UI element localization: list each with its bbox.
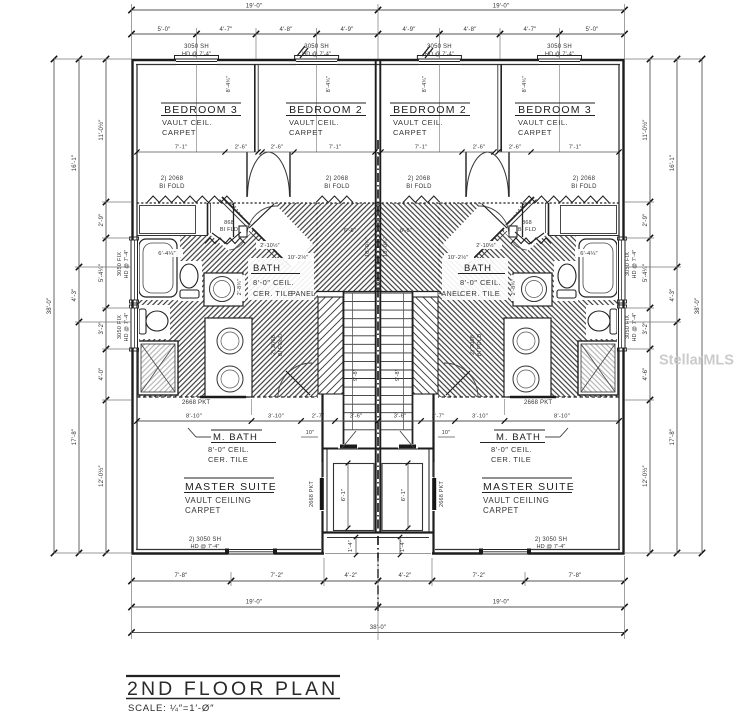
- corner closet (angled bifold): [208, 203, 252, 252]
- svg-text:6′-4¼″: 6′-4¼″: [580, 251, 598, 257]
- svg-text:11′-0½″: 11′-0½″: [642, 119, 649, 141]
- party wall: [375, 59, 377, 532]
- svg-text:6′-6″: 6′-6″: [400, 228, 412, 234]
- svg-text:3′-6″: 3′-6″: [350, 414, 363, 420]
- svg-text:BATH: BATH: [253, 263, 281, 274]
- svg-text:M. BATH: M. BATH: [496, 432, 541, 443]
- stair treads left unit: [344, 293, 376, 430]
- svg-text:HD @ 7′-4″: HD @ 7′-4″: [124, 313, 130, 342]
- left extension lines: [54, 58, 131, 60]
- svg-text:2′-10½″: 2′-10½″: [260, 242, 280, 249]
- svg-text:2ND FLOOR PLAN: 2ND FLOOR PLAN: [127, 678, 338, 700]
- svg-text:7′-1″: 7′-1″: [415, 145, 428, 151]
- svg-text:3050 SH: 3050 SH: [547, 44, 572, 50]
- svg-text:16′-1″: 16′-1″: [72, 154, 78, 171]
- closet 6ft1 dims: [347, 463, 349, 528]
- hall white area: [233, 203, 313, 267]
- svg-text:10′-2½″: 10′-2½″: [448, 254, 469, 261]
- svg-text:8′-4¾″: 8′-4¾″: [226, 76, 232, 93]
- vanity with sink (hall bath): [204, 273, 243, 306]
- svg-text:8′-0″ CEIL.: 8′-0″ CEIL.: [491, 445, 532, 454]
- window 3050 FIX left wall: [129, 308, 139, 348]
- top dimension row segments: [132, 33, 625, 35]
- svg-text:2) 2068: 2) 2068: [271, 335, 277, 355]
- svg-text:2′-9″: 2′-9″: [99, 213, 105, 227]
- svg-text:8′-0″ CEIL.: 8′-0″ CEIL.: [460, 278, 501, 287]
- svg-text:5′-0″: 5′-0″: [158, 27, 172, 33]
- svg-text:2′-10½″: 2′-10½″: [476, 242, 496, 249]
- svg-text:3050 FIX: 3050 FIX: [117, 315, 123, 339]
- svg-text:HD @ 7′-4″: HD @ 7′-4″: [425, 52, 454, 58]
- svg-text:2′-9″: 2′-9″: [643, 213, 649, 227]
- svg-text:7′-1″: 7′-1″: [175, 145, 188, 151]
- bedroom dim rows: [137, 151, 258, 153]
- svg-text:BI FOLD: BI FOLD: [477, 334, 483, 357]
- svg-text:5′-0″: 5′-0″: [586, 27, 600, 33]
- svg-text:3050 FIX: 3050 FIX: [117, 252, 123, 276]
- svg-text:7′-2″: 7′-2″: [473, 573, 487, 579]
- BEDROOM 2 label (right): [390, 102, 470, 104]
- svg-text:2′-7″: 2′-7″: [312, 414, 325, 420]
- svg-text:2668 PKT: 2668 PKT: [439, 481, 445, 508]
- svg-text:HD @ 7′-4″: HD @ 7′-4″: [545, 52, 574, 58]
- svg-text:6′-4¼″: 6′-4¼″: [158, 251, 176, 257]
- svg-text:HD @ 7′-4″: HD @ 7′-4″: [632, 250, 638, 279]
- diagonal closet wall: [222, 197, 250, 225]
- svg-text:3050 SH: 3050 SH: [184, 44, 209, 50]
- svg-text:CER. TILE: CER. TILE: [460, 289, 500, 298]
- svg-text:BEDROOM 3: BEDROOM 3: [164, 104, 238, 116]
- svg-text:4′-2″: 4′-2″: [399, 573, 413, 579]
- svg-text:12′-0½″: 12′-0½″: [98, 464, 105, 486]
- svg-text:10′-0¾″: 10′-0¾″: [365, 237, 371, 257]
- svg-text:4′-7″: 4′-7″: [524, 27, 538, 33]
- bath door swing: [247, 206, 277, 236]
- break marks on top row: [297, 46, 305, 56]
- svg-text:4′-8″: 4′-8″: [464, 27, 478, 33]
- right dimension chain inner: [649, 59, 651, 553]
- svg-text:VAULT CEIL.: VAULT CEIL.: [393, 118, 443, 127]
- svg-text:4′-9″: 4′-9″: [341, 27, 355, 33]
- svg-text:4′-9″: 4′-9″: [403, 27, 417, 33]
- top extension lines: [131, 4, 133, 59]
- svg-text:2′-6″: 2′-6″: [271, 145, 284, 151]
- svg-text:2′-6″: 2′-6″: [473, 145, 486, 151]
- svg-text:HD @ 7′-4″: HD @ 7′-4″: [182, 52, 211, 58]
- svg-text:19′-0″: 19′-0″: [493, 4, 510, 10]
- svg-text:3′-10″: 3′-10″: [472, 414, 488, 420]
- svg-text:7′-2″: 7′-2″: [271, 573, 285, 579]
- svg-text:4′-7″: 4′-7″: [220, 27, 234, 33]
- M. BATH label right: [494, 429, 545, 431]
- M. BATH leader left: [196, 436, 211, 438]
- svg-text:2) 2068: 2) 2068: [573, 176, 596, 182]
- svg-text:4′-0″: 4′-0″: [99, 367, 105, 381]
- svg-text:19′-0″: 19′-0″: [493, 600, 510, 606]
- svg-text:4′-3″: 4′-3″: [670, 288, 676, 302]
- svg-text:8′-10″: 8′-10″: [186, 414, 202, 420]
- hatched bath floor (ceramic tile) left unit: [137, 203, 318, 397]
- svg-text:HD @ 7′-4″: HD @ 7′-4″: [191, 544, 220, 550]
- svg-text:BI FOLD: BI FOLD: [278, 334, 284, 357]
- svg-text:VAULT CEIL.: VAULT CEIL.: [518, 118, 568, 127]
- svg-text:10″: 10″: [442, 430, 451, 436]
- hatched hall area above stairs: [316, 203, 378, 291]
- bottom exterior wall (master suite): [132, 552, 325, 554]
- top exterior wall: [132, 59, 379, 61]
- svg-text:19′-0″: 19′-0″: [246, 4, 263, 10]
- svg-text:CARPET: CARPET: [518, 128, 552, 137]
- svg-text:4′-8″: 4′-8″: [280, 27, 294, 33]
- svg-text:VAULT CEIL.: VAULT CEIL.: [162, 118, 212, 127]
- BATH label left: [248, 258, 314, 300]
- svg-text:2668 PKT: 2668 PKT: [182, 400, 210, 406]
- svg-text:38′-0″: 38′-0″: [695, 297, 701, 314]
- window 3050 FIX left wall: [129, 240, 139, 300]
- tiled shower with X: [138, 341, 178, 395]
- svg-text:7′-1″: 7′-1″: [329, 145, 342, 151]
- svg-text:8′-0″ CEIL.: 8′-0″ CEIL.: [253, 278, 294, 287]
- svg-text:4′-6″: 4′-6″: [643, 367, 649, 381]
- svg-text:BEDROOM 2: BEDROOM 2: [289, 104, 363, 116]
- svg-text:HD @ 7′-4″: HD @ 7′-4″: [124, 250, 130, 279]
- svg-text:2′-8¾″: 2′-8¾″: [511, 279, 517, 296]
- landing wall at stair bottom: [323, 448, 379, 450]
- svg-text:2′-8¾″: 2′-8¾″: [237, 279, 243, 296]
- right extension lines: [625, 58, 702, 60]
- svg-text:CARPET: CARPET: [162, 128, 196, 137]
- svg-text:3050 SH: 3050 SH: [304, 44, 329, 50]
- svg-text:10′-0¾″: 10′-0¾″: [383, 237, 389, 257]
- svg-text:2668 PKT: 2668 PKT: [309, 481, 315, 508]
- svg-text:PANEL: PANEL: [437, 291, 461, 298]
- svg-text:VAULT CEIL.: VAULT CEIL.: [289, 118, 339, 127]
- svg-text:HD @ 7′-4″: HD @ 7′-4″: [632, 313, 638, 342]
- svg-text:7′-8″: 7′-8″: [569, 573, 583, 579]
- svg-text:10″: 10″: [306, 430, 315, 436]
- svg-text:11′-0½″: 11′-0½″: [98, 119, 105, 141]
- svg-text:2′-7″: 2′-7″: [432, 414, 445, 420]
- left dimension chain mid: [78, 59, 80, 553]
- tile/carpet boundary (dashed): [137, 396, 318, 398]
- M. BATH label left: [211, 429, 262, 431]
- left exterior wall: [131, 59, 133, 555]
- svg-text:MASTER SUITE: MASTER SUITE: [185, 481, 277, 493]
- right dimension chain 38ft: [701, 59, 703, 553]
- bottom dimension row segments: [132, 580, 625, 582]
- svg-text:9′-8″: 9′-8″: [353, 369, 359, 381]
- svg-text:17′-8″: 17′-8″: [72, 428, 78, 445]
- svg-text:2′-6″: 2′-6″: [509, 145, 522, 151]
- svg-text:CARPET: CARPET: [185, 506, 221, 515]
- svg-text:12′-0½″: 12′-0½″: [642, 464, 649, 486]
- bottom dimension row 19ft: [132, 606, 625, 608]
- bathtub: [136, 236, 180, 300]
- svg-text:CER. TILE: CER. TILE: [491, 455, 531, 464]
- master vanity double sink: [205, 318, 252, 397]
- window 3050 SH top wall: [176, 56, 217, 66]
- svg-text:VAULT CEILING: VAULT CEILING: [185, 496, 251, 505]
- svg-text:2) 3050 SH: 2) 3050 SH: [189, 537, 221, 543]
- svg-text:6′-1″: 6′-1″: [341, 489, 347, 502]
- svg-text:2) 2068: 2) 2068: [326, 176, 349, 182]
- svg-text:3′-2″: 3′-2″: [643, 321, 649, 335]
- window 2/3050 SH bottom wall: [228, 547, 274, 556]
- left dimension chain inner: [105, 59, 107, 553]
- svg-text:1′-4″: 1′-4″: [400, 540, 406, 552]
- svg-text:BEDROOM 3: BEDROOM 3: [518, 104, 592, 116]
- BEDROOM 3 label (right): [515, 102, 595, 104]
- svg-text:StellarMLS: StellarMLS: [659, 353, 734, 369]
- bifold door center closet: [316, 196, 353, 203]
- corner bifold leaves: [212, 232, 241, 244]
- svg-text:17′-8″: 17′-8″: [670, 428, 676, 445]
- recessed entry wall at bottom center: [321, 532, 323, 555]
- svg-text:PANEL: PANEL: [291, 291, 315, 298]
- stair stringers: [352, 293, 354, 430]
- svg-text:16′-1″: 16′-1″: [670, 154, 676, 171]
- svg-text:2668 PKT: 2668 PKT: [524, 400, 552, 406]
- window 3050 SH top wall: [296, 56, 337, 66]
- svg-text:2′-6″: 2′-6″: [235, 145, 248, 151]
- closet front wall (dotted): [137, 202, 378, 204]
- svg-text:1′-4″: 1′-4″: [348, 540, 354, 552]
- svg-text:CER. TILE: CER. TILE: [253, 289, 293, 298]
- svg-text:6′-6″: 6′-6″: [344, 228, 356, 234]
- svg-text:VAULT CEILING: VAULT CEILING: [483, 496, 549, 505]
- svg-text:CARPET: CARPET: [483, 506, 519, 515]
- svg-text:SCALE: ¼″=1′-Ø″: SCALE: ¼″=1′-Ø″: [128, 703, 214, 714]
- svg-text:8′-4¾″: 8′-4¾″: [326, 76, 332, 93]
- svg-text:3050 FIX: 3050 FIX: [625, 315, 631, 339]
- misc small dims halos: [153, 249, 183, 257]
- svg-text:8′-10″: 8′-10″: [554, 414, 570, 420]
- pocket door on tile line: [200, 396, 246, 399]
- svg-text:BATH: BATH: [464, 263, 492, 274]
- BEDROOM 3 label (left): [161, 102, 241, 104]
- svg-text:BI FOLD: BI FOLD: [571, 184, 597, 190]
- entry closet below stairs: [334, 464, 375, 531]
- svg-text:3050 FIX: 3050 FIX: [625, 252, 631, 276]
- svg-text:38′-0″: 38′-0″: [47, 297, 53, 314]
- BEDROOM 2 label (left): [286, 102, 366, 104]
- svg-text:8′-4¾″: 8′-4¾″: [522, 76, 528, 93]
- svg-text:10′-2½″: 10′-2½″: [288, 254, 309, 261]
- svg-text:BI FLD: BI FLD: [518, 227, 536, 233]
- svg-text:2) 3050 SH: 2) 3050 SH: [535, 537, 567, 543]
- svg-text:2) 2068: 2) 2068: [161, 176, 184, 182]
- svg-text:HD @ 7′-4″: HD @ 7′-4″: [302, 52, 331, 58]
- bottom dimension row 38ft: [132, 632, 625, 634]
- svg-text:7′-1″: 7′-1″: [569, 145, 582, 151]
- master suite right wall: [321, 394, 323, 532]
- svg-text:19′-0″: 19′-0″: [246, 600, 263, 606]
- party wall centerline (dash-dot): [377, 140, 379, 612]
- top dimension row 19ft: [132, 9, 625, 11]
- mirrored right unit geometry: [378, 56, 627, 557]
- svg-text:4′-2″: 4′-2″: [345, 573, 359, 579]
- svg-text:868: 868: [522, 220, 532, 226]
- svg-text:CER. TILE: CER. TILE: [208, 455, 248, 464]
- right dimension chain mid: [676, 59, 678, 553]
- interior dim row above master bath: [137, 420, 619, 422]
- pocket door 2668 PKT: [321, 477, 324, 511]
- svg-text:MASTER SUITE: MASTER SUITE: [483, 481, 575, 493]
- svg-text:BI FOLD: BI FOLD: [159, 184, 185, 190]
- small interior closet bifold: [205, 238, 245, 244]
- svg-text:2) 2068: 2) 2068: [470, 335, 476, 355]
- MASTER SUITE label left: [184, 477, 274, 479]
- svg-text:9′-8″: 9′-8″: [395, 369, 401, 381]
- svg-text:868: 868: [224, 220, 234, 226]
- MASTER SUITE label right: [482, 477, 572, 479]
- left dimension chain 38ft: [53, 59, 55, 553]
- closet floor strip below bifold: [137, 203, 208, 236]
- 1ft4 dims: [355, 537, 357, 555]
- svg-text:7′-8″: 7′-8″: [175, 573, 189, 579]
- bifold door bedroom3 closet: [147, 196, 233, 203]
- bottom extension lines: [131, 556, 133, 639]
- svg-text:HD @ 7′-4″: HD @ 7′-4″: [537, 544, 566, 550]
- stair side wall: [343, 291, 345, 448]
- bedroom divider wall: [254, 64, 256, 152]
- closet jambs: [246, 152, 248, 197]
- master bath door swing: [278, 363, 312, 397]
- svg-text:2) 2068: 2) 2068: [408, 176, 431, 182]
- svg-text:CARPET: CARPET: [393, 128, 427, 137]
- svg-text:3′-2″: 3′-2″: [99, 321, 105, 335]
- svg-text:3050 SH: 3050 SH: [427, 44, 452, 50]
- diagonal hall wall: [252, 228, 291, 267]
- hatched plumbing wall beside stairs: [318, 297, 343, 394]
- svg-text:3′-10″: 3′-10″: [268, 414, 284, 420]
- svg-text:6′-1″: 6′-1″: [401, 489, 407, 502]
- toilet (master bath): [138, 305, 170, 339]
- svg-text:8′-0″ CEIL.: 8′-0″ CEIL.: [208, 445, 249, 454]
- double door to bedroom 2 (pointed arch): [248, 152, 269, 196]
- toilet (hall bath): [178, 261, 202, 301]
- svg-text:BI FLD: BI FLD: [220, 227, 238, 233]
- svg-text:M. BATH: M. BATH: [213, 432, 258, 443]
- svg-text:5′-4¼″: 5′-4¼″: [99, 263, 105, 282]
- svg-text:CARPET: CARPET: [289, 128, 323, 137]
- svg-text:BI FOLD: BI FOLD: [406, 184, 432, 190]
- M. BATH leader right: [545, 436, 560, 438]
- svg-text:5′-4¼″: 5′-4¼″: [643, 263, 649, 282]
- svg-text:BEDROOM 2: BEDROOM 2: [393, 104, 467, 116]
- BATH label right: [442, 258, 508, 300]
- svg-text:4′-3″: 4′-3″: [72, 288, 78, 302]
- svg-text:8′-4¾″: 8′-4¾″: [422, 76, 428, 93]
- svg-text:3′-6″: 3′-6″: [394, 414, 407, 420]
- svg-text:BI FOLD: BI FOLD: [324, 184, 350, 190]
- title: 2ND FLOOR PLAN: [126, 675, 340, 677]
